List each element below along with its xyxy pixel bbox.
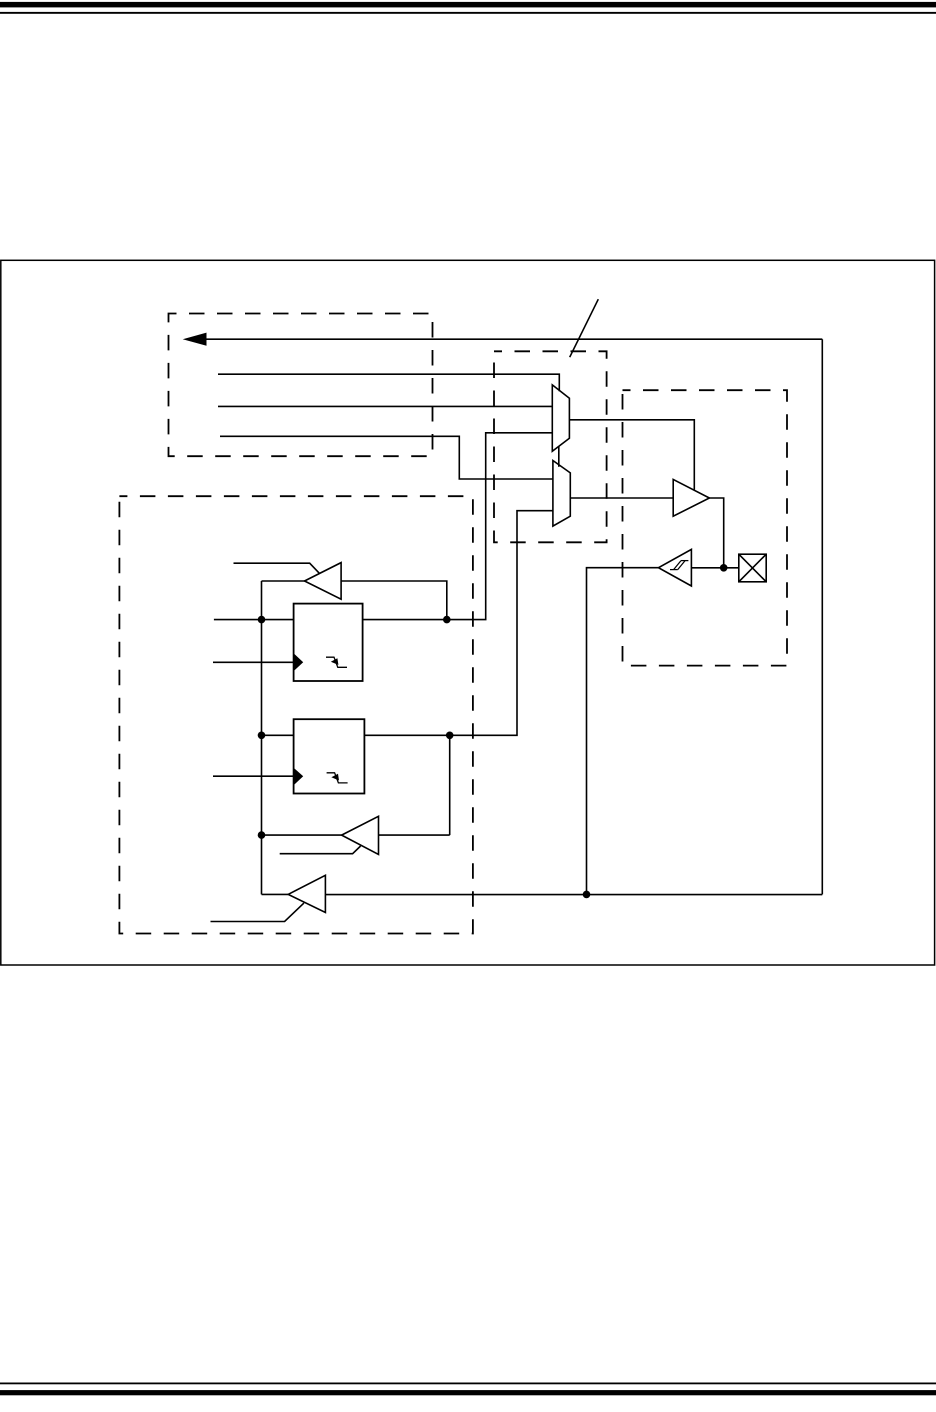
node: read line junction <box>583 891 591 899</box>
wire: U7 D input <box>262 734 294 736</box>
U6 clock edge triangle <box>294 653 304 671</box>
wire: pin node line <box>691 567 738 569</box>
wire: U7 Q to U8 input <box>449 735 451 835</box>
wire: U1 output to buffer enable <box>569 420 694 490</box>
wire: bottom read line <box>325 894 822 896</box>
U7 falling edge glyph <box>327 773 348 783</box>
flip-flop U7 (tris latch) <box>294 719 365 793</box>
node: U7 Q junction <box>446 732 454 740</box>
pin pad X1 <box>739 554 766 582</box>
node: U8 output junction <box>258 831 266 839</box>
tri-state buffer U8 (middle) <box>342 816 379 854</box>
wire: U9 output to bus <box>262 893 289 895</box>
wire: right feedback vertical <box>821 339 823 894</box>
wire: data bus line <box>204 338 822 340</box>
node: U7 D junction <box>258 732 266 740</box>
U7 falling edge arrow <box>331 774 339 781</box>
U6 falling edge glyph <box>326 657 347 667</box>
wire: mux input line <box>218 405 552 407</box>
U7 clock edge triangle <box>294 768 304 786</box>
node: U6 Q junction <box>443 616 451 624</box>
callout slash <box>570 299 599 357</box>
wire: U9 enable <box>211 903 304 921</box>
wire: U7 clock input <box>213 775 294 777</box>
wire: U5 input feedback <box>341 581 447 620</box>
page header thin rule <box>0 12 936 14</box>
dashed region: mux group (middle) <box>494 351 607 542</box>
page footer thin rule <box>0 1383 936 1385</box>
tri-state buffer U5 (top) <box>305 563 342 600</box>
wire: U8 input <box>379 834 450 836</box>
mux U2 (lower) <box>553 461 570 527</box>
wire: U7 Q output <box>364 511 553 736</box>
wire: U2 output to buffer input <box>570 497 673 499</box>
wire: U6 Q output <box>363 433 553 620</box>
page header thick rule <box>0 2 936 8</box>
U6 falling edge arrow <box>331 658 339 665</box>
wire: U8 enable <box>280 846 361 854</box>
wire: lower mux input line <box>220 436 553 479</box>
wire: vertical data bus (left) <box>261 581 263 894</box>
schmitt trigger U4 <box>659 549 692 586</box>
wire: U6 clock input <box>213 661 294 663</box>
wire: U5 output to bus <box>262 580 305 582</box>
wire: select input line <box>218 374 559 391</box>
wire: U5 enable <box>234 563 320 573</box>
flip-flop U6 (data latch) <box>294 604 363 681</box>
wire: U6 D input <box>214 619 294 621</box>
output buffer U3 <box>673 479 709 516</box>
figure frame <box>1 260 935 965</box>
schmitt hysteresis glyph <box>670 561 688 570</box>
wire: schmitt output down to read line <box>587 568 659 895</box>
node: pin junction <box>720 564 728 572</box>
dashed region: port latches (left) <box>119 496 473 933</box>
wire: mux select connector <box>558 446 560 467</box>
data bus arrowhead <box>183 333 207 346</box>
wire: buffer output to pin <box>709 498 723 568</box>
node: U6 D junction <box>258 616 266 624</box>
dashed region: data bus (top-left) <box>169 314 433 457</box>
tri-state buffer U9 (bottom) <box>288 875 325 912</box>
wire: U8 output to bus <box>262 834 342 836</box>
mux U1 (upper) <box>552 385 569 451</box>
page footer thick rule <box>0 1390 936 1395</box>
dashed region: pin driver (right) <box>623 390 788 665</box>
